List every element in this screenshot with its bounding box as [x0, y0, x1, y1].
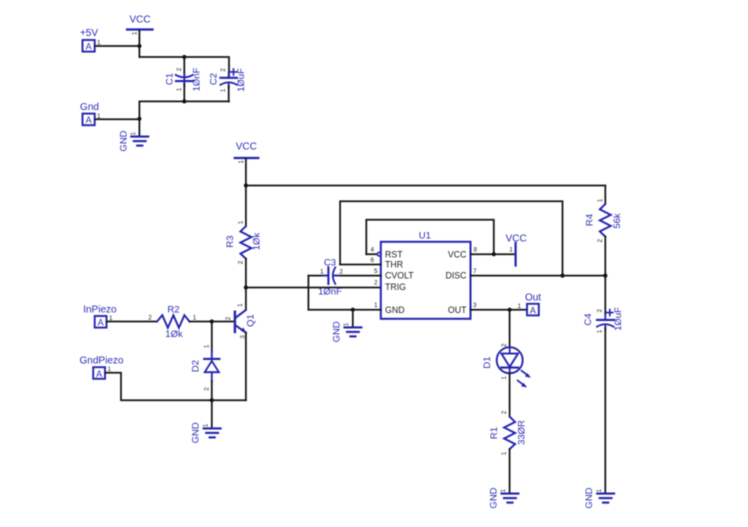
connector +5V (A pin 1) [80, 28, 101, 52]
ground symbol GND (at U1) [332, 321, 362, 342]
svg-text:2: 2 [220, 68, 227, 72]
wire TRIG rail to U1 [246, 287, 381, 289]
svg-text:A: A [96, 369, 102, 379]
svg-text:U1: U1 [419, 230, 431, 241]
wire ground stub at U1 [352, 310, 354, 327]
svg-text:33ØR: 33ØR [516, 420, 527, 445]
pin VCC label (pin 8) [448, 247, 478, 260]
svg-text:R1: R1 [489, 427, 500, 439]
wire C3 down to U1 GND pin [308, 276, 380, 310]
ground symbol GND (bottom right) [584, 487, 614, 508]
svg-text:VCC: VCC [129, 15, 150, 26]
svg-text:Q1: Q1 [246, 314, 257, 327]
connector Gnd (A pin 1) [80, 102, 101, 125]
junction R3/TRIG/collector [244, 285, 248, 289]
svg-text:RST: RST [385, 249, 403, 259]
capacitor C1 10nF [164, 57, 202, 101]
svg-text:C1: C1 [164, 73, 175, 85]
svg-text:1: 1 [130, 131, 137, 135]
wire THR loop to DISC node [340, 201, 562, 275]
connector Out (A pin 1) [517, 293, 541, 316]
svg-text:D2: D2 [191, 360, 202, 372]
pin CVOLT label (pin 5) [374, 268, 414, 281]
svg-text:Out: Out [525, 293, 541, 304]
transistor Q1 NPN [225, 303, 256, 339]
svg-text:C3: C3 [324, 257, 336, 268]
junction GND pin / ground [351, 308, 355, 312]
svg-text:1: 1 [220, 88, 227, 92]
capacitor C4 10uF polarized [583, 307, 624, 333]
junction R2/D2/base [210, 319, 214, 323]
svg-text:1: 1 [238, 220, 245, 224]
svg-text:1Øk: 1Øk [251, 233, 262, 251]
svg-text:2: 2 [501, 343, 508, 347]
wire rail corner down to R4 [604, 186, 606, 205]
resistor R3 10k [225, 220, 262, 264]
svg-text:THR: THR [385, 260, 403, 270]
capacitor C2 10uF polarized [209, 68, 247, 102]
svg-text:2: 2 [203, 387, 210, 391]
svg-text:OUT: OUT [448, 305, 467, 315]
svg-text:VCC: VCC [448, 249, 467, 259]
ground symbol GND (below R1) [489, 487, 519, 508]
junction top rail at C1 [182, 55, 186, 59]
pin THR label (pin 6) [340, 257, 403, 270]
connector GndPiezo (A pin 1) [80, 356, 124, 379]
svg-text:DISC: DISC [445, 271, 467, 281]
pin DISC label (pin 7) [445, 268, 477, 281]
wire VCC down through rail junction to R3 [245, 159, 247, 226]
junction DISC / R4 / C4 [603, 274, 607, 278]
svg-text:+5V: +5V [80, 28, 98, 39]
wire OUT to Out connector [471, 309, 528, 311]
junction bottom rail at C1 [182, 99, 186, 103]
wire VCC bar down to +5V junction and top rail [138, 31, 140, 58]
svg-text:1: 1 [203, 344, 210, 348]
svg-text:2: 2 [148, 315, 152, 322]
svg-text:1: 1 [597, 198, 604, 202]
wire R1 down to ground [509, 449, 511, 493]
wire C4 down to ground [604, 328, 606, 493]
wire OUT node down to LED [509, 310, 511, 348]
wire bottom rail C1/C2 to Gnd drop [139, 101, 229, 136]
svg-text:1: 1 [238, 160, 245, 164]
supply symbol VCC (middle) [235, 142, 259, 164]
svg-text:GND: GND [118, 130, 129, 151]
wire D2 bottom lead [211, 381, 213, 400]
svg-text:R2: R2 [167, 305, 179, 316]
wire +5V to junction [95, 45, 139, 47]
svg-text:1ØnF: 1ØnF [192, 67, 203, 91]
svg-text:1ØuF: 1ØuF [613, 307, 624, 331]
resistor R2 10k [148, 305, 197, 340]
wire R4 to DISC node [604, 237, 606, 276]
wire R3 to Q1 collector node [245, 259, 247, 310]
ground symbol GND (top-left) [118, 130, 148, 151]
svg-text:1: 1 [509, 247, 513, 254]
svg-text:C2: C2 [209, 73, 220, 85]
wire GndPiezo to ground rail [105, 373, 246, 400]
svg-text:2: 2 [339, 268, 343, 275]
svg-text:1: 1 [500, 488, 507, 492]
svg-text:Gnd: Gnd [80, 102, 99, 113]
svg-text:2: 2 [238, 260, 245, 264]
svg-text:2: 2 [176, 67, 183, 71]
svg-text:1: 1 [343, 322, 350, 326]
pin GND label (pin 1) [374, 302, 405, 315]
svg-text:1: 1 [237, 303, 244, 307]
wire ground stub below junction [211, 400, 213, 428]
svg-text:1: 1 [501, 376, 508, 380]
connector InPiezo (A pin 1) [83, 305, 117, 328]
junction VCC rail [244, 183, 248, 187]
junction RST loop / VCC pin [492, 252, 496, 256]
svg-text:R4: R4 [584, 214, 595, 226]
svg-text:1ØuF: 1ØuF [236, 68, 247, 92]
wire VCC rail to R4 [246, 185, 605, 187]
junction OUT / LED [508, 308, 512, 312]
svg-text:1: 1 [176, 87, 183, 91]
svg-text:VCC: VCC [236, 142, 257, 153]
supply symbol VCC (at pin 8, rotated) [506, 234, 527, 266]
wire Gnd connector to junction [95, 118, 139, 120]
wire DISC to R4/C4 node [471, 275, 606, 277]
svg-text:1: 1 [597, 329, 604, 333]
svg-text:5: 5 [374, 268, 378, 275]
svg-text:GndPiezo: GndPiezo [80, 356, 124, 367]
supply symbol VCC (top-left) [127, 15, 153, 36]
junction +5V/VCC [137, 44, 141, 48]
wire top rail to C2 [139, 57, 229, 78]
svg-text:2: 2 [597, 308, 604, 312]
wire CVOLT to C3 [335, 275, 380, 277]
svg-text:D1: D1 [482, 356, 493, 368]
diode D2 [191, 344, 220, 391]
wire VCC pin 8 to VCC symbol [471, 253, 516, 255]
svg-text:7: 7 [473, 268, 477, 275]
svg-text:A: A [98, 318, 104, 328]
wire InPiezo to R2 [107, 321, 157, 323]
svg-text:1ØnF: 1ØnF [318, 286, 342, 297]
svg-text:1: 1 [517, 303, 521, 310]
junction D2/ground rail [210, 398, 214, 402]
svg-text:A: A [86, 115, 92, 125]
op-amp/IC U1 body [381, 230, 471, 318]
svg-text:6: 6 [370, 257, 374, 264]
svg-text:1: 1 [374, 302, 378, 309]
svg-text:GND: GND [489, 487, 500, 508]
svg-text:1: 1 [596, 488, 603, 492]
svg-text:A: A [530, 305, 536, 315]
svg-text:2: 2 [501, 410, 508, 414]
junction Gnd [137, 117, 141, 121]
svg-text:C4: C4 [583, 313, 594, 325]
svg-text:56k: 56k [612, 213, 623, 229]
svg-text:2: 2 [225, 316, 232, 320]
wire DISC node down to C4 [604, 276, 606, 315]
svg-text:4: 4 [370, 247, 374, 254]
svg-text:1: 1 [202, 423, 209, 427]
svg-text:A: A [86, 42, 92, 52]
svg-text:1: 1 [501, 451, 508, 455]
pin RST label (pin 4, inverted) [366, 247, 403, 260]
svg-text:CVOLT: CVOLT [385, 271, 414, 281]
resistor R4 56k [584, 198, 623, 242]
capacitor C3 10nF [308, 257, 343, 297]
LED D1 [482, 343, 531, 388]
svg-text:3: 3 [473, 302, 477, 309]
wire Q1 emitter down [245, 333, 247, 401]
svg-text:GND: GND [385, 305, 405, 315]
svg-text:1Øk: 1Øk [165, 329, 183, 340]
svg-text:1: 1 [320, 268, 324, 275]
resistor R1 330R [489, 410, 528, 455]
wire D2 top lead [211, 322, 213, 353]
svg-text:InPiezo: InPiezo [83, 305, 117, 316]
wire LED to R1 [509, 373, 511, 416]
svg-text:2: 2 [597, 238, 604, 242]
svg-text:R3: R3 [225, 235, 236, 247]
pin TRIG label (pin 2) [374, 280, 406, 293]
svg-text:GND: GND [584, 487, 595, 508]
junction THR loop / DISC wire [560, 274, 564, 278]
pin OUT label (pin 3) [448, 302, 477, 315]
svg-text:2: 2 [374, 280, 378, 287]
svg-text:8: 8 [474, 247, 478, 254]
wire RST loop to VCC pin [366, 220, 494, 255]
wire R2 to Q1 base [190, 321, 235, 323]
svg-text:GND: GND [332, 321, 343, 342]
svg-text:TRIG: TRIG [385, 282, 406, 292]
svg-text:1: 1 [132, 31, 139, 35]
svg-text:GND: GND [191, 422, 202, 443]
ground symbol GND (piezo) [191, 422, 221, 443]
